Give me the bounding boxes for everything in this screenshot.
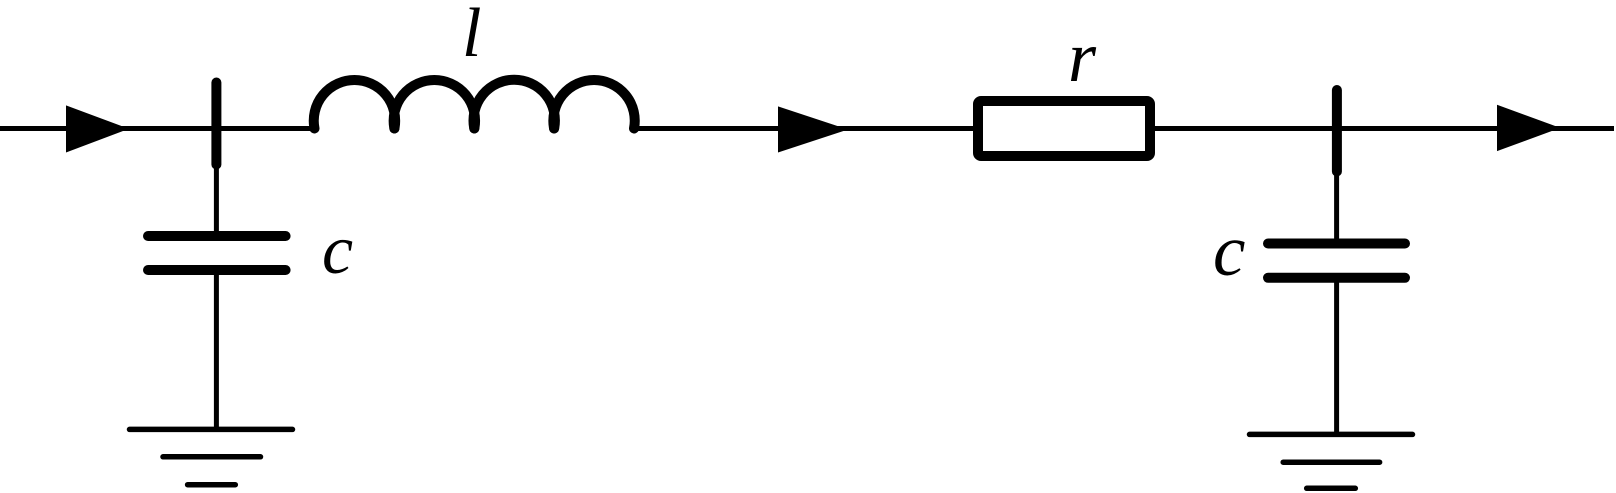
capacitor C2 bottom plate [1268,273,1405,283]
capacitor C1 bottom plate [148,265,286,275]
ground G1 bar 2 [163,454,261,460]
svg-text:c: c [322,212,353,289]
svg-text:c: c [1213,210,1245,291]
node N1: junction tick at inductor input [211,83,221,165]
ground G2 bar 2 [1283,459,1379,465]
arrow A2: mid-line signal direction [778,106,848,152]
capacitor C1 top plate [148,231,286,241]
wire W6: node N2 down to capacitor C2 [1334,129,1339,242]
svg-text:l: l [462,0,481,72]
label l (inductance value) [462,0,481,72]
label c (left capacitance value) [322,212,353,289]
wire W2: inductor to resistor [634,126,978,131]
ground G2 bar 1 [1250,432,1413,438]
svg-text:r: r [1068,17,1097,97]
inductor l [314,80,635,129]
wire W5: capacitor C1 to ground G1 [214,270,219,429]
wire W4: node N1 down to capacitor C1 [214,129,219,235]
ground G1 bar 3 [188,482,236,488]
resistor r [978,101,1150,156]
wire W1: input lead from left edge to node N1 and on to inductor [0,126,315,131]
arrow A3: output signal direction [1497,105,1560,151]
node N2: junction tick at resistor output [1332,90,1342,172]
capacitor C2 top plate [1268,239,1405,249]
ground G1 bar 1 [130,427,293,433]
label c (right capacitance value) [1213,210,1245,291]
wire W7: capacitor C2 to ground G2 [1334,278,1339,435]
ground G2 bar 3 [1307,486,1356,492]
arrow A1: input signal direction [66,105,129,152]
label r (resistance value) [1068,17,1097,97]
wire W3: resistor to node N2 and output lead to right edge [1150,126,1614,131]
